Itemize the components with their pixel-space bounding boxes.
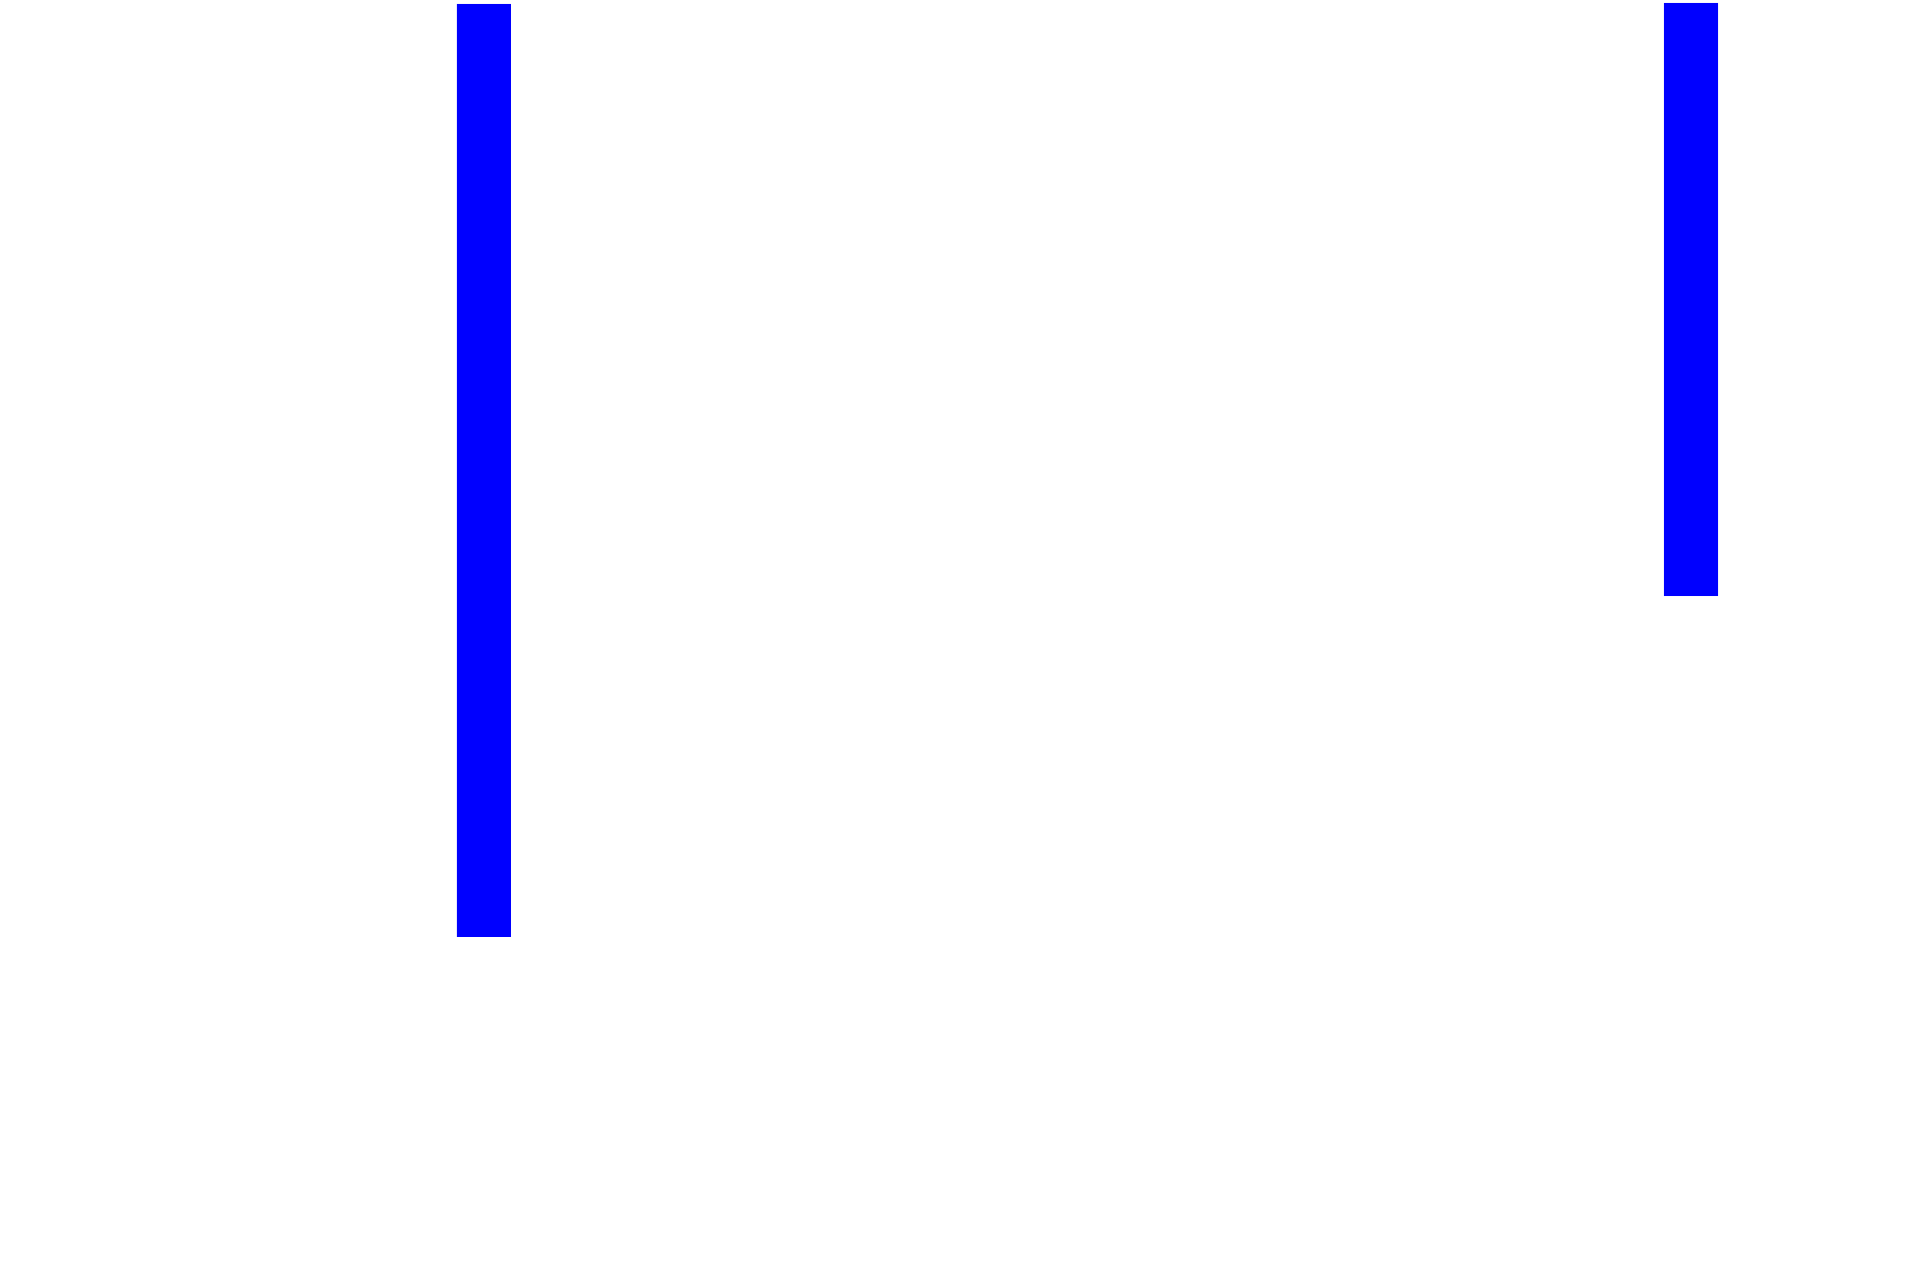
- bar 1 (left blue column): [457, 4, 511, 937]
- bar 2 (right blue column): [1664, 3, 1718, 596]
